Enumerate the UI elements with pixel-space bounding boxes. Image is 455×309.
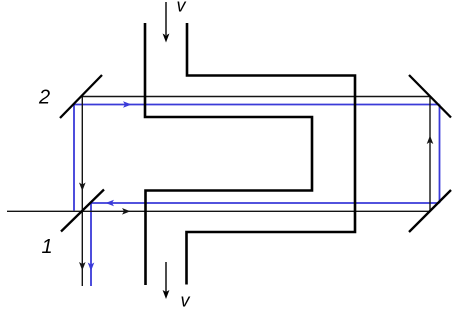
mirror 1 (beam splitter, bottom-left) (61, 190, 104, 232)
mirror 2 (top-left) (60, 75, 102, 118)
svg-text:2: 2 (38, 87, 50, 109)
blue ray arrow down (to detector) (88, 263, 95, 272)
black ray arrow down lower (to detector) (79, 262, 86, 271)
flow arrow top (v) (163, 2, 170, 43)
mirror bottom-right (409, 190, 451, 232)
blue ray: right vertical (top-right mirror down to bottom-right mirror) (439, 105, 441, 204)
mirror top-right (409, 75, 451, 118)
blue ray: top horizontal (mirror 2 to top-right mirror) (74, 104, 440, 106)
black ray arrow right (after beamsplitter) (122, 208, 131, 215)
blue ray: down vertical (beamsplitter to detector) (90, 203, 92, 286)
black ray arrow down upper (above beamsplitter) (79, 183, 86, 192)
tube inner wall (inlet left wall, upper tube bottom wall, inner right wall, lower tube top wall, outlet left wall) (145, 23, 312, 285)
svg-text:1: 1 (42, 236, 53, 258)
black ray: left vertical (mirror 2 down through beamsplitter) (81, 97, 83, 287)
black ray arrow up (right vertical) (427, 136, 434, 145)
black ray: top horizontal (mirror 2 to top-right mirror) (82, 96, 430, 98)
blue ray: left vertical (beamsplitter up to mirror 2) (73, 105, 75, 211)
black ray: right vertical (up along mirror side) (429, 97, 431, 212)
tube outer wall (inlet right wall, top wall, outer right wall, bottom wall, outlet right wall) (187, 23, 356, 285)
svg-text:v: v (177, 0, 187, 16)
blue ray arrow right (top horizontal) (123, 101, 132, 108)
flow arrow bottom (v) (163, 262, 170, 299)
black ray: input + lower horizontal (left edge to bottom-right mirror) (7, 210, 430, 212)
blue ray: bottom horizontal (bottom-right mirror back to beamsplitter) (91, 202, 440, 204)
blue ray arrow left (bottom horizontal) (106, 200, 115, 207)
svg-text:v: v (181, 291, 191, 309)
